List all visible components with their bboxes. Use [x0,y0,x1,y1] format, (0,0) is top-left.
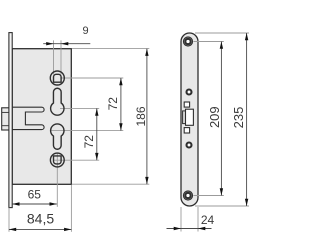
follower F1 square hole [54,74,62,82]
extension line from body bottom (186 bottom) [72,183,149,185]
latch recess flange [183,111,186,124]
latch bolt face [186,109,194,125]
svg-text:72: 72 [106,97,120,111]
dimension 65 line [12,202,57,205]
svg-text:235: 235 [231,107,246,129]
dimension 24 line [167,227,212,230]
extension line faceplate front vertical (84.5 left) [8,208,10,232]
extension line plate left vertical (24) [180,207,182,232]
lock body (side view case) [12,49,71,185]
follower F2 square hole [54,156,62,164]
extension line plate right vertical (24) [197,207,199,232]
extension line from body top (186 top) [72,48,149,50]
svg-text:186: 186 [134,106,148,126]
extension lines square spindle (9 dim) [53,40,55,74]
follower F2 circle [50,153,64,167]
follower F1 circle [50,71,64,85]
faceplate edge-on strip [9,33,12,208]
dimension 235 line [245,33,248,206]
extension line screw top center (209) [194,41,224,43]
dimension 84,5 line [9,228,72,231]
extension line center column vertical (65 right) [56,153,58,207]
svg-text:72: 72 [82,135,96,149]
extension line body back vertical (84.5 right) [70,185,72,232]
svg-text:209: 209 [207,106,222,128]
dimension 209 line [220,42,223,196]
latch bolt tail fork (inside case) [12,107,44,129]
svg-text:84,5: 84,5 [27,211,54,227]
cylinder keyhole K1 (slot up) [51,88,64,115]
dimension 186 line [145,49,148,185]
extension line plate bottom (235) [195,205,249,207]
faceplate front view plate [181,33,198,206]
screw hole bottom [184,191,193,200]
extension line keyhole1 center (y=108.4) [60,107,99,109]
svg-text:9: 9 [82,25,88,37]
extension line keyhole2 center (y=130.6) [51,130,124,132]
cylinder keyhole K2 (slot down) [51,124,64,149]
small hole upper [187,90,192,95]
extension line follower2 center (y=160.2) [53,159,99,161]
dimension 72 upper line [119,78,122,131]
extension line plate top (235) [195,32,249,34]
latch opening top square [184,102,189,107]
dimension 72 lower line [95,108,98,160]
small hole lower [187,143,192,148]
latch bolt head (protruding left of faceplate) [2,108,10,130]
extension line follower1 center (72 top, y=78) [62,77,124,79]
svg-text:65: 65 [28,188,42,202]
svg-text:24: 24 [201,213,215,227]
latch opening bottom square [184,128,189,133]
screw hole top [184,37,193,46]
dimension 9 line [43,42,90,45]
extension line screw bottom center (209) [194,195,224,197]
